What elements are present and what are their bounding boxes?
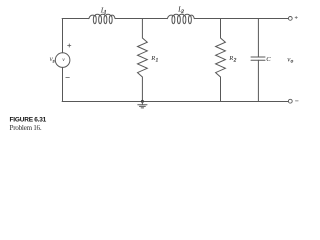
svg-text:R: R (228, 55, 233, 62)
node junction dot at R1 bottom (141, 100, 144, 103)
capacitor C (251, 19, 265, 102)
terminal top (288, 17, 292, 21)
source polarity + (68, 44, 71, 47)
svg-text:s: s (53, 59, 55, 65)
svg-text:1: 1 (156, 57, 159, 63)
source polarity - (66, 77, 70, 79)
label L1 (100, 5, 107, 15)
label L2 (177, 5, 184, 15)
source symbol v (62, 57, 65, 63)
svg-text:1: 1 (104, 10, 107, 16)
label R1 (150, 55, 158, 64)
svg-text:v: v (62, 57, 65, 63)
ground (138, 102, 147, 108)
svg-text:R: R (150, 55, 155, 62)
svg-text:2: 2 (181, 9, 184, 15)
svg-text:Problem 16.: Problem 16. (10, 124, 42, 132)
resistor R1 (138, 19, 148, 102)
caption figure number (10, 117, 47, 132)
svg-text:2: 2 (234, 57, 237, 63)
svg-text:o: o (291, 59, 294, 65)
label C (266, 56, 271, 63)
svg-text:FIGURE: FIGURE (10, 117, 34, 124)
wire L2 to output terminal (194, 18, 288, 20)
terminal top polarity + (295, 16, 297, 18)
wire between L1 and L2 (115, 18, 167, 20)
node vo label (287, 55, 293, 64)
svg-text:C: C (266, 56, 271, 63)
inductor L2 (167, 14, 194, 23)
wire top-left horizontal (62, 18, 89, 20)
terminal bottom polarity - (295, 100, 298, 102)
terminal bottom (288, 99, 292, 103)
label vs (50, 56, 55, 64)
svg-text:6.31: 6.31 (34, 117, 46, 124)
wire bottom (62, 100, 288, 102)
label R2 (228, 55, 236, 64)
inductor L1 (89, 14, 115, 23)
voltage source vs (55, 19, 70, 102)
resistor R2 (216, 19, 226, 102)
